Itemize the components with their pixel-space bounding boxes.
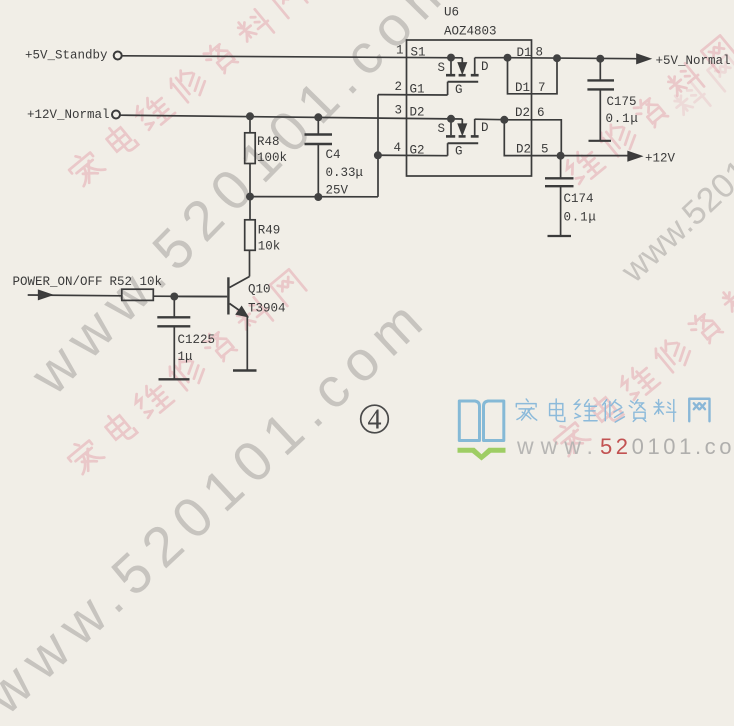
svg-text:www.520101.com: www.520101.com xyxy=(516,433,734,459)
